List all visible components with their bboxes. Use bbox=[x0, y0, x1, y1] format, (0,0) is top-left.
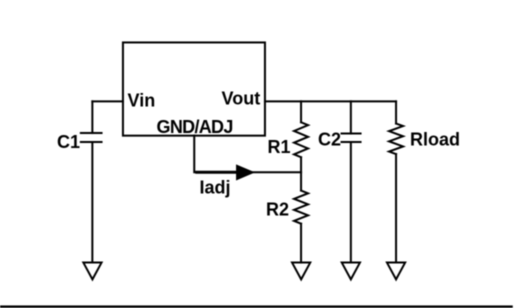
wire C1 bottom bbox=[91, 142, 93, 262]
svg-text:Iadj: Iadj bbox=[200, 178, 231, 198]
svg-text:GND/ADJ: GND/ADJ bbox=[157, 117, 233, 137]
wire Vout output bbox=[265, 100, 396, 102]
wire R2 bottom bbox=[300, 224, 302, 263]
svg-text:R1: R1 bbox=[268, 137, 291, 157]
svg-text:C1: C1 bbox=[57, 132, 80, 152]
regulator box U1 bbox=[123, 42, 265, 135]
ground C2 bbox=[342, 263, 360, 280]
border bottom rule bbox=[0, 305, 513, 307]
svg-text:R2: R2 bbox=[266, 200, 289, 220]
wire R1 bottom bbox=[300, 157, 302, 172]
wire C2 top bbox=[350, 101, 352, 133]
wire C1 top bbox=[91, 101, 93, 133]
resistor R2 bbox=[294, 191, 308, 224]
wire Rload bottom bbox=[395, 154, 397, 262]
svg-text:Rload: Rload bbox=[410, 130, 460, 150]
wire C2 bottom bbox=[350, 142, 352, 262]
capacitor C1 bbox=[81, 132, 102, 134]
ground R2 bbox=[292, 263, 310, 280]
svg-text:Vout: Vout bbox=[222, 89, 261, 109]
wire GND/ADJ bbox=[194, 136, 301, 173]
wire Rload top bbox=[395, 101, 397, 123]
wire Iadj thick segment bbox=[195, 171, 236, 174]
svg-text:Vin: Vin bbox=[128, 91, 156, 111]
wire R2 top bbox=[300, 172, 302, 190]
ground Rload bbox=[387, 263, 405, 280]
resistor Rload bbox=[389, 124, 403, 155]
wire R1 top bbox=[300, 101, 302, 122]
ground C1 bbox=[83, 263, 101, 280]
arrow Iadj bbox=[236, 164, 255, 180]
resistor R1 bbox=[294, 122, 308, 157]
capacitor C2 bbox=[342, 133, 361, 135]
wire Vin input bbox=[92, 100, 123, 102]
svg-text:C2: C2 bbox=[318, 130, 341, 150]
